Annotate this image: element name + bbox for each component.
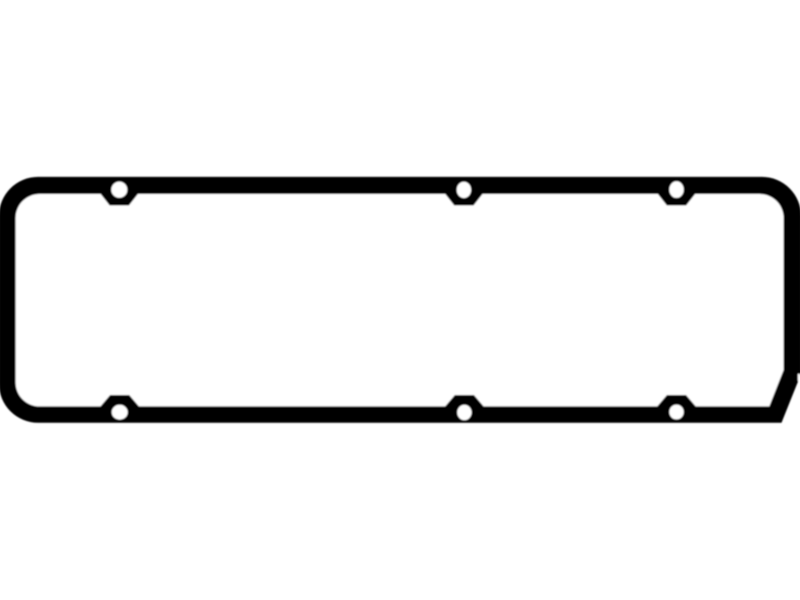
- boss bottom-middle: [445, 396, 483, 408]
- hole top-right: [669, 181, 683, 198]
- boss bottom-left: [101, 396, 139, 408]
- gasket outer band: [0, 177, 800, 423]
- hole top-middle: [457, 182, 471, 198]
- notch right edge: [798, 374, 800, 381]
- boss top-middle: [445, 192, 483, 205]
- boss top-right: [658, 192, 696, 205]
- hole bottom-right: [669, 405, 683, 420]
- gasket inner cutout: [16, 194, 784, 406]
- boss top-left: [100, 192, 138, 205]
- hole bottom-left: [112, 405, 128, 420]
- boss bottom-right: [658, 396, 696, 408]
- hole top-left: [111, 182, 127, 198]
- hole bottom-middle: [457, 405, 471, 420]
